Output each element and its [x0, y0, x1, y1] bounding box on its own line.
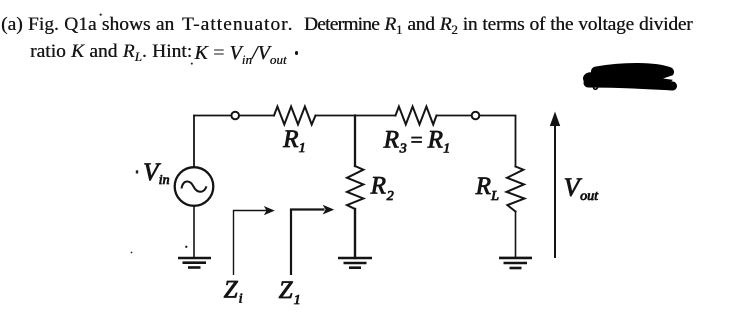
svg-text:i: i: [239, 292, 243, 307]
svg-text:Z: Z: [224, 277, 239, 304]
svg-text:1: 1: [294, 293, 301, 308]
svg-text:Z: Z: [279, 277, 294, 304]
svg-text:3: 3: [399, 142, 407, 157]
svg-text:R: R: [383, 127, 399, 154]
svg-text:2: 2: [387, 189, 394, 204]
svg-text:1: 1: [299, 141, 306, 156]
svg-text:L: L: [490, 189, 499, 204]
svg-text:1: 1: [443, 142, 450, 157]
svg-text:in: in: [159, 173, 170, 188]
svg-text:=: =: [411, 128, 423, 152]
svg-text:R: R: [282, 126, 298, 153]
svg-text:out: out: [580, 189, 599, 204]
svg-text:R: R: [475, 173, 491, 200]
svg-text:R: R: [427, 127, 443, 154]
svg-text:R: R: [370, 173, 386, 200]
